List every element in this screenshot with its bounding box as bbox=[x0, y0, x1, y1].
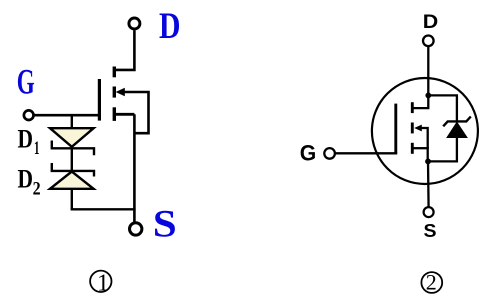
body arrow Q1 bbox=[116, 88, 125, 96]
body arrow Q2 bbox=[414, 125, 422, 132]
wire drain to body diode cathode bbox=[428, 95, 457, 120]
gate bar Q2 bbox=[394, 104, 397, 154]
wire D2 anode down bbox=[71, 189, 73, 210]
svg-text:1: 1 bbox=[34, 138, 40, 159]
channel dash body Q2 bbox=[411, 123, 414, 134]
svg-text:D: D bbox=[159, 6, 181, 47]
svg-text:D: D bbox=[423, 11, 439, 33]
wire drain Q2 bbox=[413, 46, 428, 108]
package circle U2 bbox=[372, 78, 478, 184]
channel dash source Q2 bbox=[411, 143, 414, 154]
wire anode to source bbox=[428, 160, 458, 162]
wire source stub Q1 bbox=[115, 113, 135, 116]
svg-text:G: G bbox=[300, 141, 317, 166]
zener diode D2 cathode bar bbox=[52, 163, 94, 177]
gate bar Q1 bbox=[98, 79, 101, 121]
svg-text:G: G bbox=[17, 61, 35, 101]
wire gate to D1 anode bbox=[71, 115, 73, 129]
svg-text:D: D bbox=[18, 164, 34, 194]
wire source vertical Q1 bbox=[133, 114, 136, 223]
junction dot drain Q2 bbox=[425, 93, 431, 99]
wire body diode anode down bbox=[456, 137, 458, 162]
svg-text:S: S bbox=[153, 202, 177, 246]
channel dash drain Q2 bbox=[411, 102, 414, 113]
terminal S1 circle bbox=[130, 223, 142, 235]
wire gate Q2 bbox=[335, 152, 397, 154]
zener diode D1 triangle bbox=[50, 128, 94, 147]
wire gate G1 bbox=[34, 114, 101, 117]
figure number 1 bbox=[90, 271, 111, 297]
channel dash drain Q1 bbox=[113, 67, 116, 78]
label D1 bbox=[18, 124, 40, 159]
terminal D1 circle bbox=[129, 18, 140, 29]
wire source stub Q2 bbox=[413, 147, 429, 149]
wire source Q2 down bbox=[427, 161, 430, 207]
svg-text:2: 2 bbox=[33, 179, 41, 200]
zener diode D1 cathode bar bbox=[52, 141, 94, 156]
svg-text:D: D bbox=[18, 124, 34, 154]
terminal D2 circle bbox=[423, 36, 434, 47]
wire body Q2 bbox=[421, 128, 428, 161]
terminal G1 circle bbox=[24, 110, 34, 120]
body diode DZ triangle bbox=[448, 123, 467, 138]
junction dot source Q2 bbox=[425, 159, 431, 165]
terminal S2 circle bbox=[424, 207, 434, 217]
terminal G2 circle bbox=[324, 148, 335, 159]
wire body Q1 bbox=[123, 92, 149, 133]
svg-text:1: 1 bbox=[97, 271, 109, 297]
body diode DZ cathode bar bbox=[443, 117, 471, 127]
wire drain Q1 bbox=[115, 30, 135, 70]
channel dash source Q1 bbox=[113, 107, 116, 121]
zener diode D2 triangle bbox=[50, 172, 94, 189]
label D2 bbox=[18, 164, 41, 200]
channel dash body Q1 bbox=[113, 87, 116, 98]
wire D1 cathode to D2 cathode bbox=[71, 148, 73, 171]
wire bottom to source bbox=[71, 208, 136, 210]
figure number 2 bbox=[421, 270, 442, 295]
svg-text:S: S bbox=[424, 221, 437, 241]
svg-text:2: 2 bbox=[426, 270, 437, 295]
